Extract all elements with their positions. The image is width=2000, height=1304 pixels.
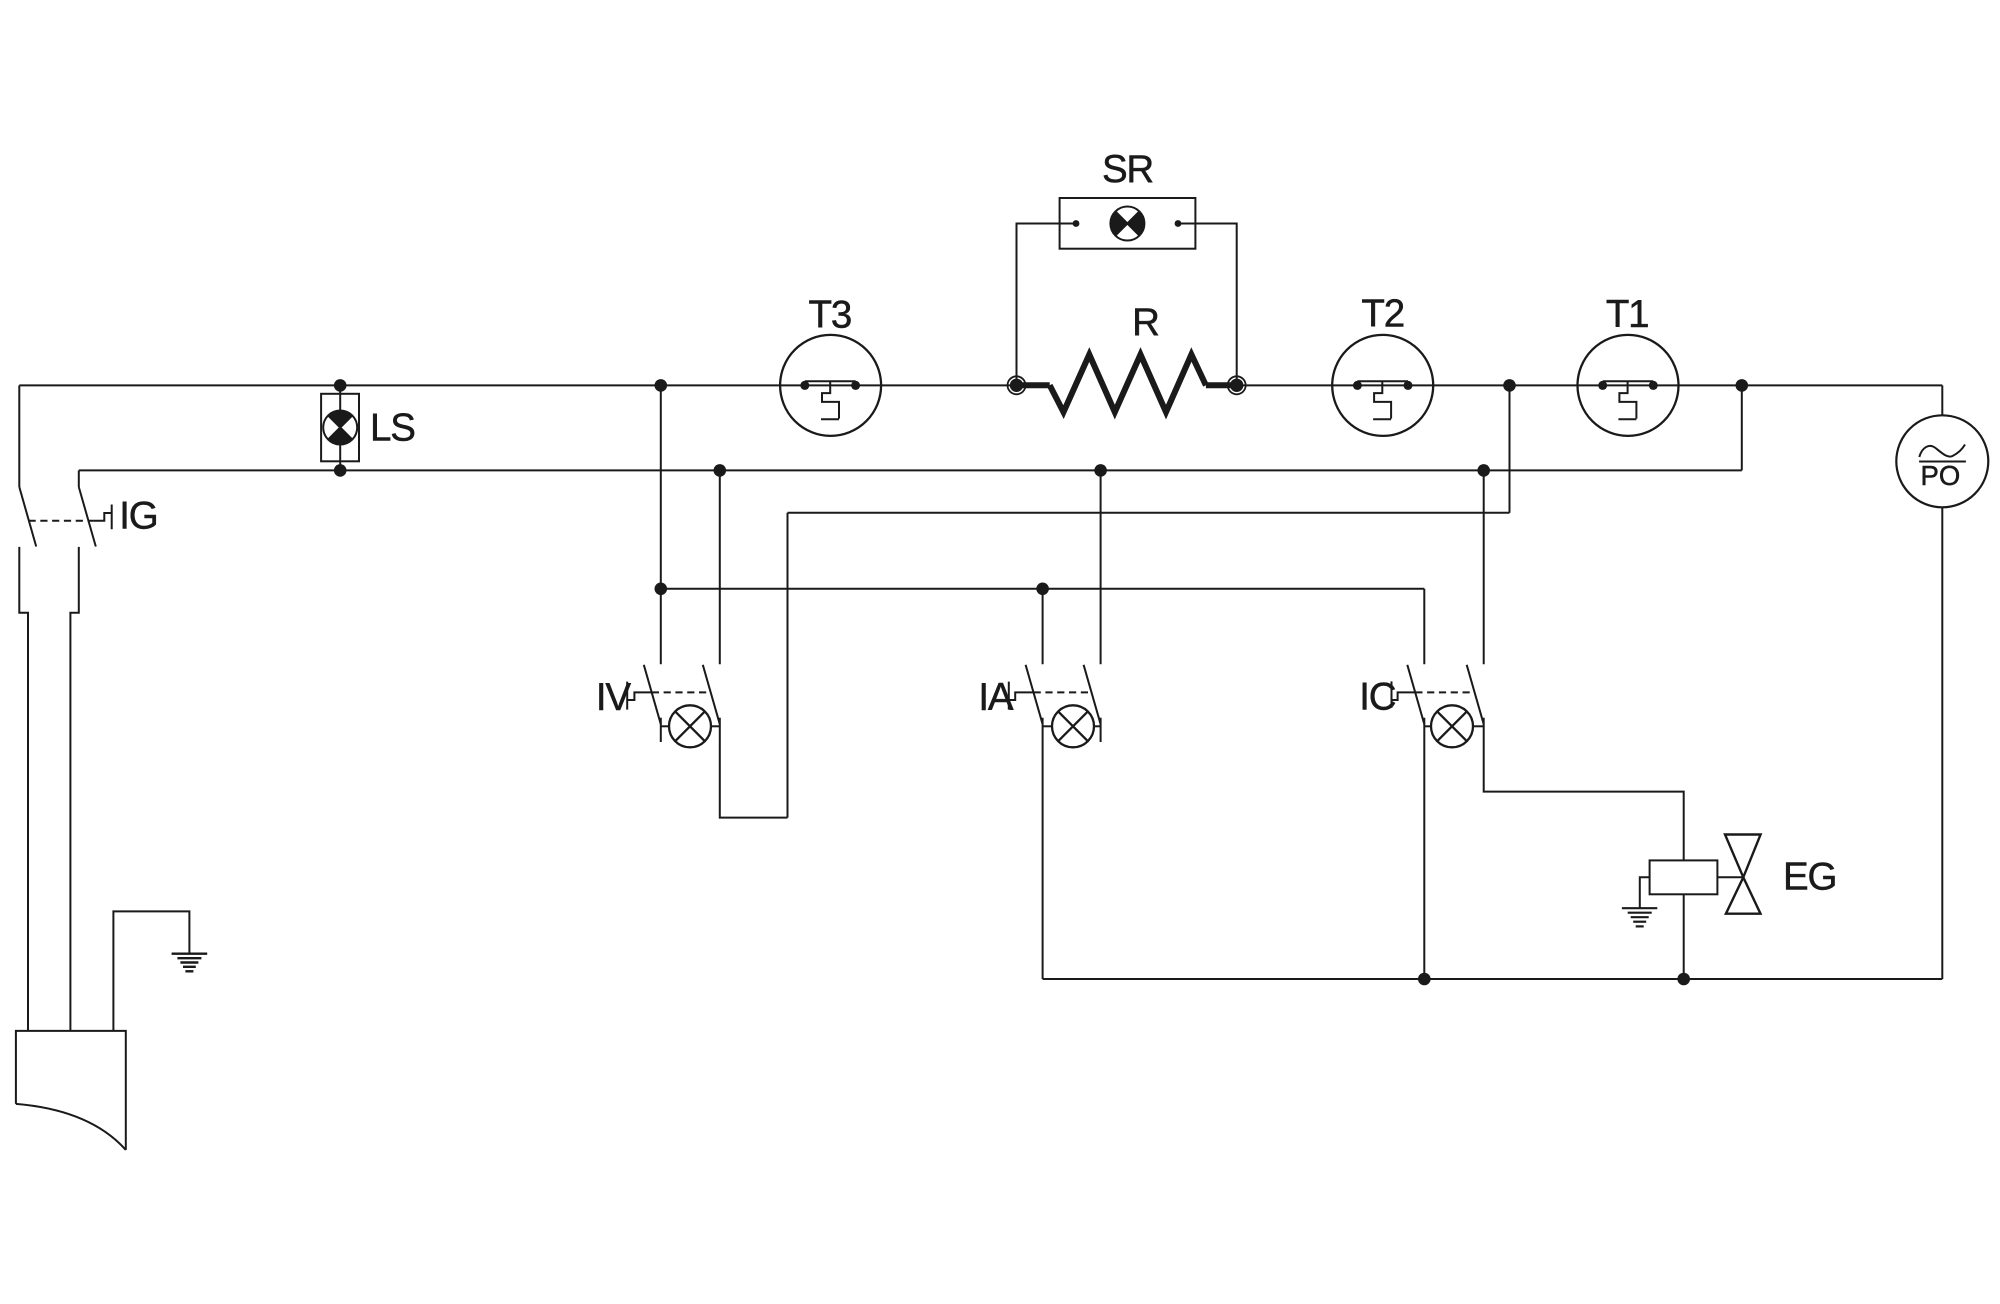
switch IG pole 1 blade bbox=[19, 487, 36, 547]
wire IA right vertical bbox=[1100, 470, 1102, 664]
thermostat T3 circle bbox=[780, 335, 881, 436]
junction node B5 at EG bbox=[1677, 973, 1690, 986]
wire bottom bus B5 bbox=[1043, 978, 1943, 980]
switch IC right blade bbox=[1467, 665, 1484, 724]
wire IV right lower jog to B4 bbox=[720, 742, 788, 818]
PO underline bbox=[1919, 461, 1966, 463]
wire main bus B1 right segment bbox=[1237, 384, 1943, 386]
wire SR left lead bbox=[1017, 224, 1077, 386]
junction node B2 at IV bbox=[714, 464, 727, 477]
thermostat T1 contact symbol bbox=[1603, 381, 1654, 419]
switch IV right blade bbox=[703, 665, 720, 724]
junction node LS bottom bbox=[334, 464, 347, 477]
wire IC right vertical bbox=[1483, 470, 1485, 664]
ground symbol at EG bbox=[1622, 908, 1657, 926]
wire IG pole 2 lower contact bbox=[70, 547, 78, 1031]
svg-text:T2: T2 bbox=[1361, 293, 1404, 336]
wire B4 right riser to B1 bbox=[1509, 385, 1511, 512]
thermostat T2 contact symbol bbox=[1357, 381, 1408, 419]
wire B4 left drop bbox=[787, 513, 789, 818]
junction node B1 at B4 riser bbox=[1503, 379, 1516, 392]
wire bus B3 bbox=[661, 588, 1425, 590]
wire bus B2 bbox=[79, 469, 1742, 471]
switch IG link dashed bbox=[29, 520, 94, 522]
power outlet PO circle bbox=[1896, 415, 1988, 507]
gas valve EG coil box bbox=[1650, 860, 1718, 894]
junction node B1 at IV bbox=[655, 379, 668, 392]
PO tilde bbox=[1919, 445, 1965, 458]
lamp of IV right lead bbox=[711, 725, 720, 727]
wire IA left vertical bbox=[1042, 589, 1044, 665]
wire IV left vertical bbox=[660, 385, 662, 664]
lamp of IA bbox=[1052, 705, 1094, 747]
junction node B3 at IA bbox=[1036, 583, 1049, 596]
switch IC actuator linkage bbox=[1392, 681, 1416, 707]
resistor R left node bbox=[1008, 376, 1246, 394]
switch IV left contact bar bbox=[660, 718, 662, 742]
mains plug body bbox=[16, 1031, 126, 1150]
thermostat T2 terminal dots bbox=[1353, 381, 1362, 390]
resistor R leads bbox=[1017, 355, 1237, 413]
svg-text:SR: SR bbox=[1102, 148, 1153, 191]
switch IV left blade bbox=[644, 665, 661, 724]
ground symbol at plug bbox=[172, 954, 208, 972]
wire IC right lower jog to EG valve bbox=[1484, 718, 1684, 861]
svg-text:LS: LS bbox=[370, 407, 415, 450]
thermostat T3 contact symbol bbox=[805, 381, 856, 419]
SR terminal dot right bbox=[1175, 220, 1182, 227]
wire B2 right riser to B1 bbox=[1741, 385, 1743, 470]
switch IA link dashed bbox=[1034, 691, 1092, 693]
switch IV right contact bar bbox=[719, 718, 721, 742]
wire main bus B1 left segment bbox=[19, 384, 1016, 386]
svg-text:PO: PO bbox=[1921, 460, 1961, 491]
svg-text:IV: IV bbox=[596, 676, 631, 719]
switch IG actuator linkage bbox=[94, 505, 112, 530]
switch IV link dashed bbox=[652, 691, 711, 693]
wire bus B4 bbox=[788, 512, 1510, 514]
wire B3 right drop to IC bbox=[1423, 589, 1425, 665]
svg-text:T3: T3 bbox=[809, 294, 852, 337]
spark regulator SR box bbox=[1060, 198, 1196, 249]
wire IA left lower drop to B5 bbox=[1042, 718, 1044, 979]
wire EG coil to B5 bbox=[1683, 894, 1685, 979]
switch IC left blade bbox=[1407, 665, 1424, 724]
wire LS upper lead bbox=[339, 385, 341, 410]
wire PO top lead bbox=[1941, 385, 1943, 415]
svg-text:IC: IC bbox=[1359, 676, 1395, 719]
wire IG pole 1 lower contact bbox=[19, 547, 28, 1031]
switch IA left blade bbox=[1026, 665, 1043, 724]
junction node B2 at IC bbox=[1477, 464, 1490, 477]
EG valve stub bbox=[1717, 876, 1743, 878]
wire IV right vertical bbox=[719, 470, 721, 664]
thermostat T1 terminal dots bbox=[1598, 381, 1607, 390]
wire SR right lead bbox=[1178, 224, 1237, 386]
svg-text:T1: T1 bbox=[1606, 293, 1649, 336]
wire PO bottom lead to B5 bbox=[1941, 507, 1943, 979]
lamp of SR bbox=[1110, 207, 1144, 241]
junction node B1 at B2 riser bbox=[1736, 379, 1749, 392]
switch IG pole 2 blade bbox=[79, 487, 96, 547]
lamp of IA right lead bbox=[1094, 725, 1101, 727]
lamp of IC right lead bbox=[1473, 725, 1484, 727]
thermostat T2 circle bbox=[1332, 335, 1433, 436]
svg-text:R: R bbox=[1132, 301, 1159, 344]
switch IA right contact bar bbox=[1100, 718, 1102, 742]
svg-text:IG: IG bbox=[119, 495, 157, 538]
resistor R zigzag bbox=[1050, 355, 1206, 413]
EG coil ground stub bbox=[1640, 877, 1650, 908]
SR terminal dot left bbox=[1073, 220, 1080, 227]
lamp of IC left lead bbox=[1424, 725, 1431, 727]
wire plug earth pin riser bbox=[113, 911, 189, 1031]
junction node LS top bbox=[334, 379, 347, 392]
wire B1 left drop to IG bbox=[18, 385, 20, 487]
junction node B3 left end bbox=[655, 583, 668, 596]
switch IC link dashed bbox=[1415, 691, 1475, 693]
lamp of IA left lead bbox=[1043, 725, 1052, 727]
lamp LS bbox=[323, 411, 357, 445]
switch IV actuator linkage bbox=[627, 682, 652, 710]
wire B2 left drop to IG pole 2 bbox=[78, 470, 80, 487]
lamp of IV left lead bbox=[661, 725, 669, 727]
wire LS lower lead bbox=[339, 444, 341, 470]
resistor R right node bbox=[1230, 379, 1243, 392]
switch IA right blade bbox=[1084, 665, 1101, 724]
EG valve body bbox=[1725, 835, 1761, 914]
lamp of IV bbox=[669, 705, 711, 747]
lamp LS box bbox=[321, 394, 359, 462]
svg-text:EG: EG bbox=[1783, 855, 1836, 898]
junction node B2 at IA bbox=[1094, 464, 1107, 477]
lamp of IC bbox=[1431, 705, 1473, 747]
thermostat T1 circle bbox=[1578, 335, 1679, 436]
thermostat T3 terminal dots bbox=[334, 379, 1748, 985]
svg-text:IA: IA bbox=[978, 676, 1013, 719]
wire IC left lower drop to B5 bbox=[1423, 718, 1425, 979]
switch IA actuator linkage bbox=[1009, 682, 1034, 710]
junction node B5 at IC bbox=[1418, 973, 1431, 986]
